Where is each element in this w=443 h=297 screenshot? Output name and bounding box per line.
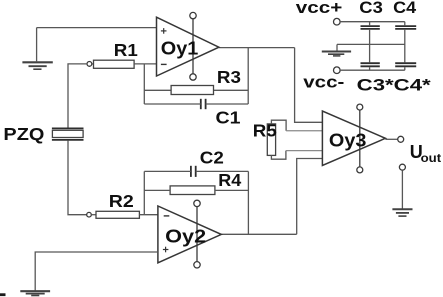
svg-text:C1: C1 <box>216 108 241 128</box>
svg-text:vcc-: vcc- <box>303 73 344 92</box>
resistor R2 <box>91 211 139 218</box>
wire C2 row <box>144 170 248 172</box>
resistor R3 <box>171 86 213 95</box>
wire C1 row <box>144 103 248 105</box>
piezo element PZQ <box>52 128 84 140</box>
wire middle ground rail <box>337 43 405 45</box>
op-amp Oy3 <box>322 104 385 173</box>
resistor R5 <box>267 124 275 155</box>
resistor R4 <box>170 186 215 195</box>
node ground terminal under U out <box>399 164 405 170</box>
svg-text:R4: R4 <box>218 170 241 190</box>
capacitor C1 <box>201 99 206 109</box>
capacitor C4* <box>395 63 416 70</box>
wire G1 to Oy1 + input <box>37 27 157 29</box>
ground G4 under U out <box>392 170 412 216</box>
svg-text:R1: R1 <box>114 40 138 60</box>
wire Oy2 output to Oy3 - input <box>297 159 323 235</box>
wire Oy1 output row <box>219 47 295 49</box>
wire Oy1 output to Oy3 + input <box>295 48 323 123</box>
svg-text:Oy2: Oy2 <box>165 227 206 247</box>
svg-text:PZQ: PZQ <box>3 124 44 144</box>
node vcc- terminal <box>334 67 341 74</box>
svg-text:R3: R3 <box>217 67 241 87</box>
capacitor C3* <box>361 63 380 70</box>
node output terminal <box>398 136 404 142</box>
wire feedback right vertical <box>247 48 249 104</box>
svg-text:Oy1: Oy1 <box>161 38 199 58</box>
wire vcc- rail <box>340 69 405 71</box>
op-amp Oy1 <box>157 12 219 80</box>
node vcc+ terminal <box>334 18 341 25</box>
ground G3 in cap bank <box>322 44 351 56</box>
wire Oy2 output row <box>221 233 296 235</box>
wire R4 row <box>144 189 248 191</box>
svg-text:vcc+: vcc+ <box>296 0 343 17</box>
svg-text:R2: R2 <box>109 191 134 211</box>
label U out <box>410 142 442 165</box>
scan mark bottom-left corner <box>0 293 6 296</box>
wire PZQ bottom to R2 node <box>68 141 87 215</box>
wire R5 bottom stub <box>271 151 286 160</box>
capacitor C2 <box>191 166 196 177</box>
wire R2 to Oy2 - input <box>139 214 158 216</box>
capacitor C3 <box>361 22 380 63</box>
svg-text:C2: C2 <box>200 148 224 168</box>
wire R5 bottom row to Oy3 - input <box>286 150 323 152</box>
wire node to PZQ top branch <box>68 64 87 128</box>
node circle at R1 left <box>87 62 92 67</box>
ground G1 top-left <box>22 28 52 70</box>
wire Oy2 + input to ground G2 <box>35 252 158 291</box>
wire R5 top stub <box>271 120 286 131</box>
op-amp Oy2 <box>158 200 221 268</box>
wire R3 row <box>144 89 248 91</box>
ground G2 bottom-left <box>20 291 50 295</box>
wire R5 top row to Oy3 + input <box>286 130 322 132</box>
wire Oy3 output <box>385 138 397 140</box>
wire junction vertical to feedback <box>143 64 145 104</box>
svg-text:C3*C4*: C3*C4* <box>357 75 431 94</box>
resistor R1 <box>92 60 134 68</box>
svg-text:out: out <box>421 153 442 165</box>
capacitor C4 <box>395 22 416 63</box>
svg-text:C4: C4 <box>393 0 417 17</box>
svg-text:Oy3: Oy3 <box>329 131 367 151</box>
wire vcc+ rail <box>340 21 405 23</box>
wire feedback right vertical Oy2 <box>247 171 249 234</box>
svg-text:R5: R5 <box>253 120 277 140</box>
node circle at R2 left <box>87 212 92 217</box>
svg-text:C3: C3 <box>359 0 383 17</box>
wire junction vertical to C2 row <box>143 171 145 214</box>
wire R1 to Oy1 - input <box>134 63 156 65</box>
